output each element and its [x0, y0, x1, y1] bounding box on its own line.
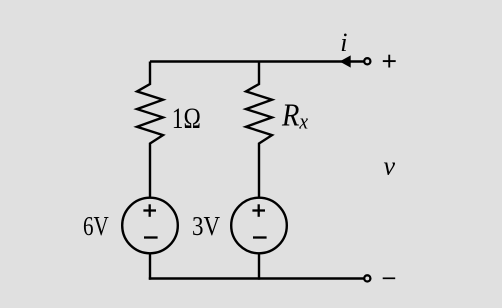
minus sign (bottom right) [383, 277, 396, 279]
V1 minus [144, 236, 158, 238]
terminal node bottom [364, 275, 370, 281]
svg-text:6V: 6V [83, 211, 109, 241]
wire top horizontal [150, 60, 364, 62]
svg-text:1Ω: 1Ω [172, 103, 201, 135]
voltage source V2 3V circle [231, 198, 287, 254]
V1 plus [143, 204, 156, 217]
V2 minus [253, 236, 267, 238]
svg-text:i: i [340, 28, 347, 57]
svg-text:Rx: Rx [281, 97, 309, 134]
V2 plus [252, 204, 265, 217]
wire bottom horizontal [149, 277, 364, 279]
wire V1 bottom to bus [149, 253, 151, 279]
svg-text:3V: 3V [192, 211, 220, 241]
svg-text:v: v [384, 152, 396, 181]
voltage source V1 6V circle [122, 198, 178, 254]
terminal node top [364, 58, 370, 64]
plus sign (top right) [383, 55, 396, 68]
resistor R1 1ohm zigzag [137, 62, 163, 198]
wire V2 bottom to bus [258, 253, 260, 279]
current arrow i [340, 55, 351, 67]
resistor Rx zigzag [246, 62, 272, 198]
